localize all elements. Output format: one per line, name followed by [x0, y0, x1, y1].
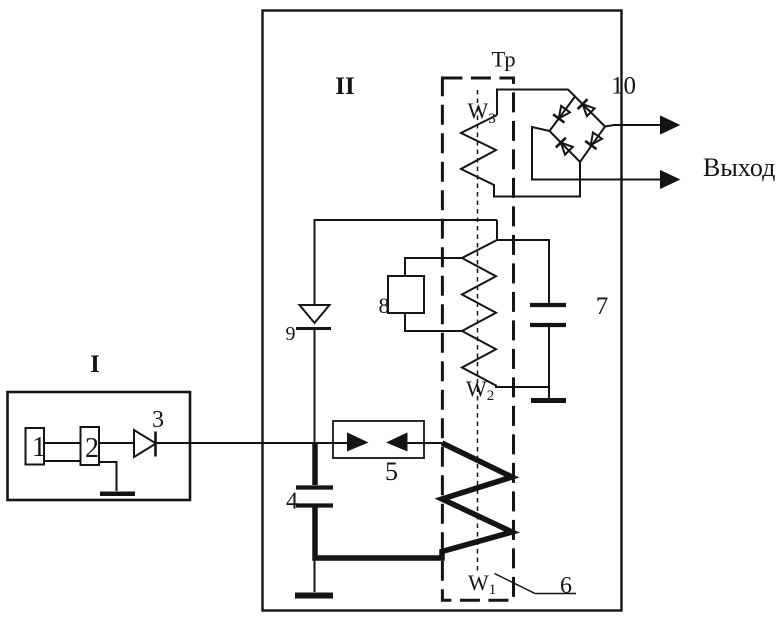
svg-text:6: 6: [560, 573, 572, 599]
svg-text:5: 5: [385, 457, 398, 486]
svg-text:W3: W3: [468, 98, 496, 127]
svg-text:II: II: [335, 73, 354, 100]
svg-text:8: 8: [379, 293, 390, 318]
svg-text:Выход: Выход: [703, 153, 775, 182]
svg-text:W2: W2: [466, 376, 494, 404]
svg-text:9: 9: [286, 323, 296, 345]
svg-text:10: 10: [611, 73, 636, 100]
svg-text:I: I: [90, 351, 100, 378]
svg-text:Тр: Тр: [492, 47, 516, 72]
svg-text:4: 4: [286, 489, 298, 515]
svg-text:2: 2: [85, 433, 99, 464]
svg-text:3: 3: [152, 407, 164, 433]
svg-text:1: 1: [32, 432, 46, 463]
svg-text:7: 7: [596, 293, 609, 320]
svg-text:W1: W1: [468, 570, 496, 598]
